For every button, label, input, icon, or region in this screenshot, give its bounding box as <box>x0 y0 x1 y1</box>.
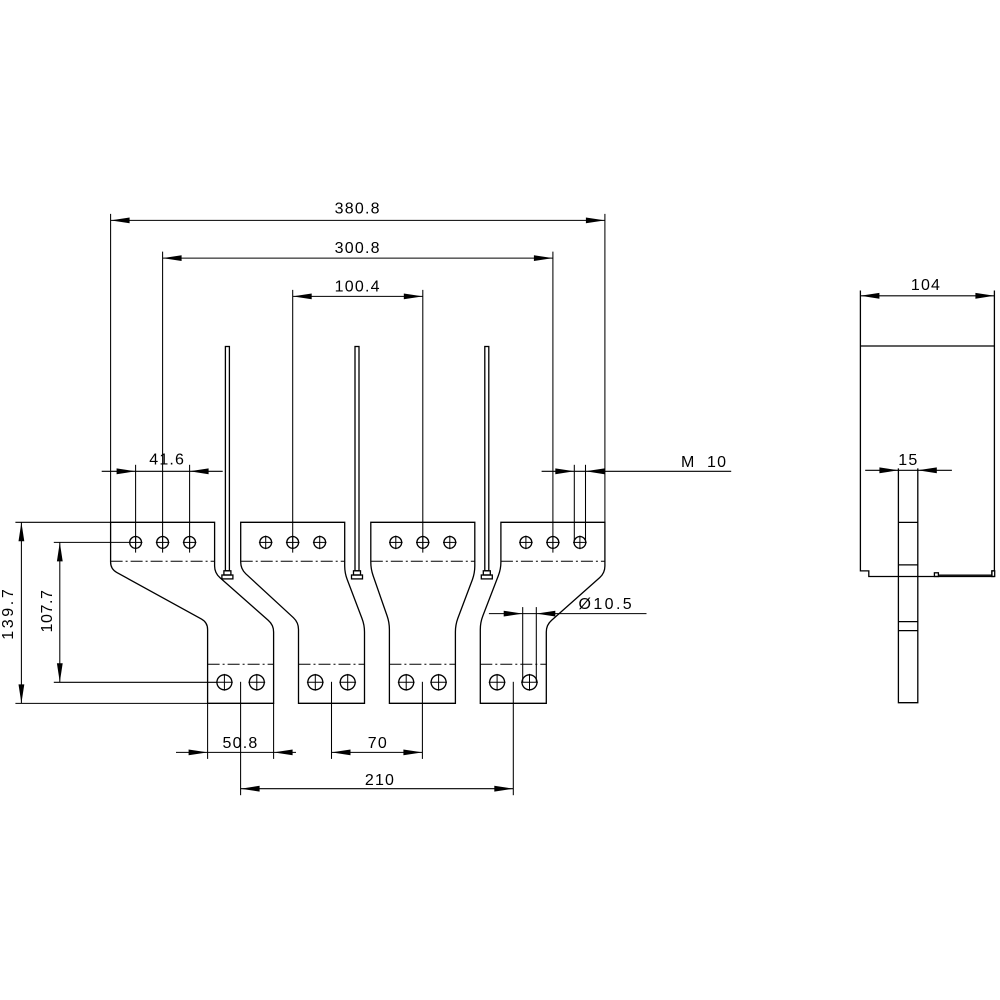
side view top band line <box>860 345 994 347</box>
bracket 2 tab holes 10.5 <box>307 674 356 691</box>
dimension 15 <box>865 452 952 473</box>
extension line tab4 center <box>512 682 514 795</box>
svg-text:M: M <box>681 454 696 471</box>
dimension 50.8 <box>176 735 296 755</box>
extension line tab1 center <box>240 682 242 795</box>
dimension 70 <box>332 735 423 755</box>
dimension 100.4 <box>293 278 423 299</box>
extension line 41.6 right <box>189 465 191 553</box>
svg-text:107.7: 107.7 <box>39 589 56 632</box>
side view bottom plate edge <box>934 573 992 577</box>
extension line 380.8 left <box>110 214 112 523</box>
dimension 107.7 <box>39 542 63 682</box>
extension line 380.8 right <box>604 214 606 523</box>
extension line 41.6 left <box>135 465 137 553</box>
dimension 139.7 <box>0 522 24 703</box>
bracket 2 tab bend line <box>299 663 365 665</box>
extension line 107.7 top <box>54 541 130 543</box>
bracket 1 tab bend line <box>208 663 274 665</box>
svg-text:210: 210 <box>365 772 395 789</box>
dimension 380.8 <box>111 200 605 223</box>
svg-text:10: 10 <box>707 454 727 471</box>
bracket 3 tab bend line <box>389 663 455 665</box>
bracket 1 plate holes M10 <box>129 536 197 550</box>
pin 2 barrier <box>352 347 363 579</box>
extension line M10 right <box>585 465 587 542</box>
extension line 100.4 left <box>292 290 294 553</box>
bracket 3 outline <box>371 522 475 703</box>
side view body outline <box>860 291 994 577</box>
pin 1 barrier <box>222 347 233 579</box>
dimension M 10 leader <box>542 454 732 474</box>
bracket 4 plate holes M10 <box>519 536 587 550</box>
bracket 2 plate holes M10 <box>259 536 327 550</box>
svg-text:104: 104 <box>911 277 941 294</box>
bracket 1 plate bend line <box>111 560 215 562</box>
bracket 4 plate bend line <box>501 560 605 562</box>
extension line M10 left <box>573 465 575 542</box>
svg-text:41.6: 41.6 <box>149 452 185 469</box>
svg-text:380.8: 380.8 <box>335 200 381 217</box>
bracket 2 outline <box>241 522 365 703</box>
extension line 100.4 right <box>422 290 424 553</box>
extension line 139.7 top <box>15 521 110 523</box>
extension line 10.5 right <box>535 607 537 682</box>
side view busbar tab <box>898 468 917 702</box>
extension line 300.8 right <box>552 252 554 553</box>
extension line 300.8 left <box>162 252 164 553</box>
svg-text:70: 70 <box>368 735 388 752</box>
dimension 300.8 <box>163 240 553 261</box>
extension line tab2 center <box>331 682 333 759</box>
bracket 4 tab holes 10.5 <box>489 674 538 691</box>
extension line 50.8 left <box>207 703 209 759</box>
bracket 4 outline <box>480 522 605 703</box>
bracket 1 tab holes 10.5 <box>216 674 265 691</box>
svg-text:139.7: 139.7 <box>0 587 17 640</box>
svg-text:100.4: 100.4 <box>335 278 381 295</box>
svg-text:Ø10.5: Ø10.5 <box>579 596 635 613</box>
extension line tab3 center <box>421 682 423 759</box>
extension line 50.8 right <box>273 703 275 759</box>
svg-text:300.8: 300.8 <box>335 240 381 257</box>
extension line 10.5 left <box>522 607 524 682</box>
dimension 41.6 <box>102 452 223 475</box>
bracket 4 tab bend line <box>480 663 546 665</box>
dimension diameter 10.5 <box>489 596 647 617</box>
dimension 210 <box>241 772 514 791</box>
pin 3 barrier <box>481 347 492 579</box>
extension line 139.7 bottom <box>15 702 207 704</box>
bracket 3 plate holes M10 <box>389 536 457 550</box>
bracket 2 plate bend line <box>241 560 345 562</box>
bracket 3 plate bend line <box>371 560 475 562</box>
svg-text:15: 15 <box>898 452 918 469</box>
extension line 107.7 bottom <box>54 681 217 683</box>
bracket 1 outline <box>111 522 274 703</box>
bracket 3 tab holes 10.5 <box>398 674 447 691</box>
side view right notch <box>992 571 995 577</box>
dimension 104 <box>860 277 994 299</box>
